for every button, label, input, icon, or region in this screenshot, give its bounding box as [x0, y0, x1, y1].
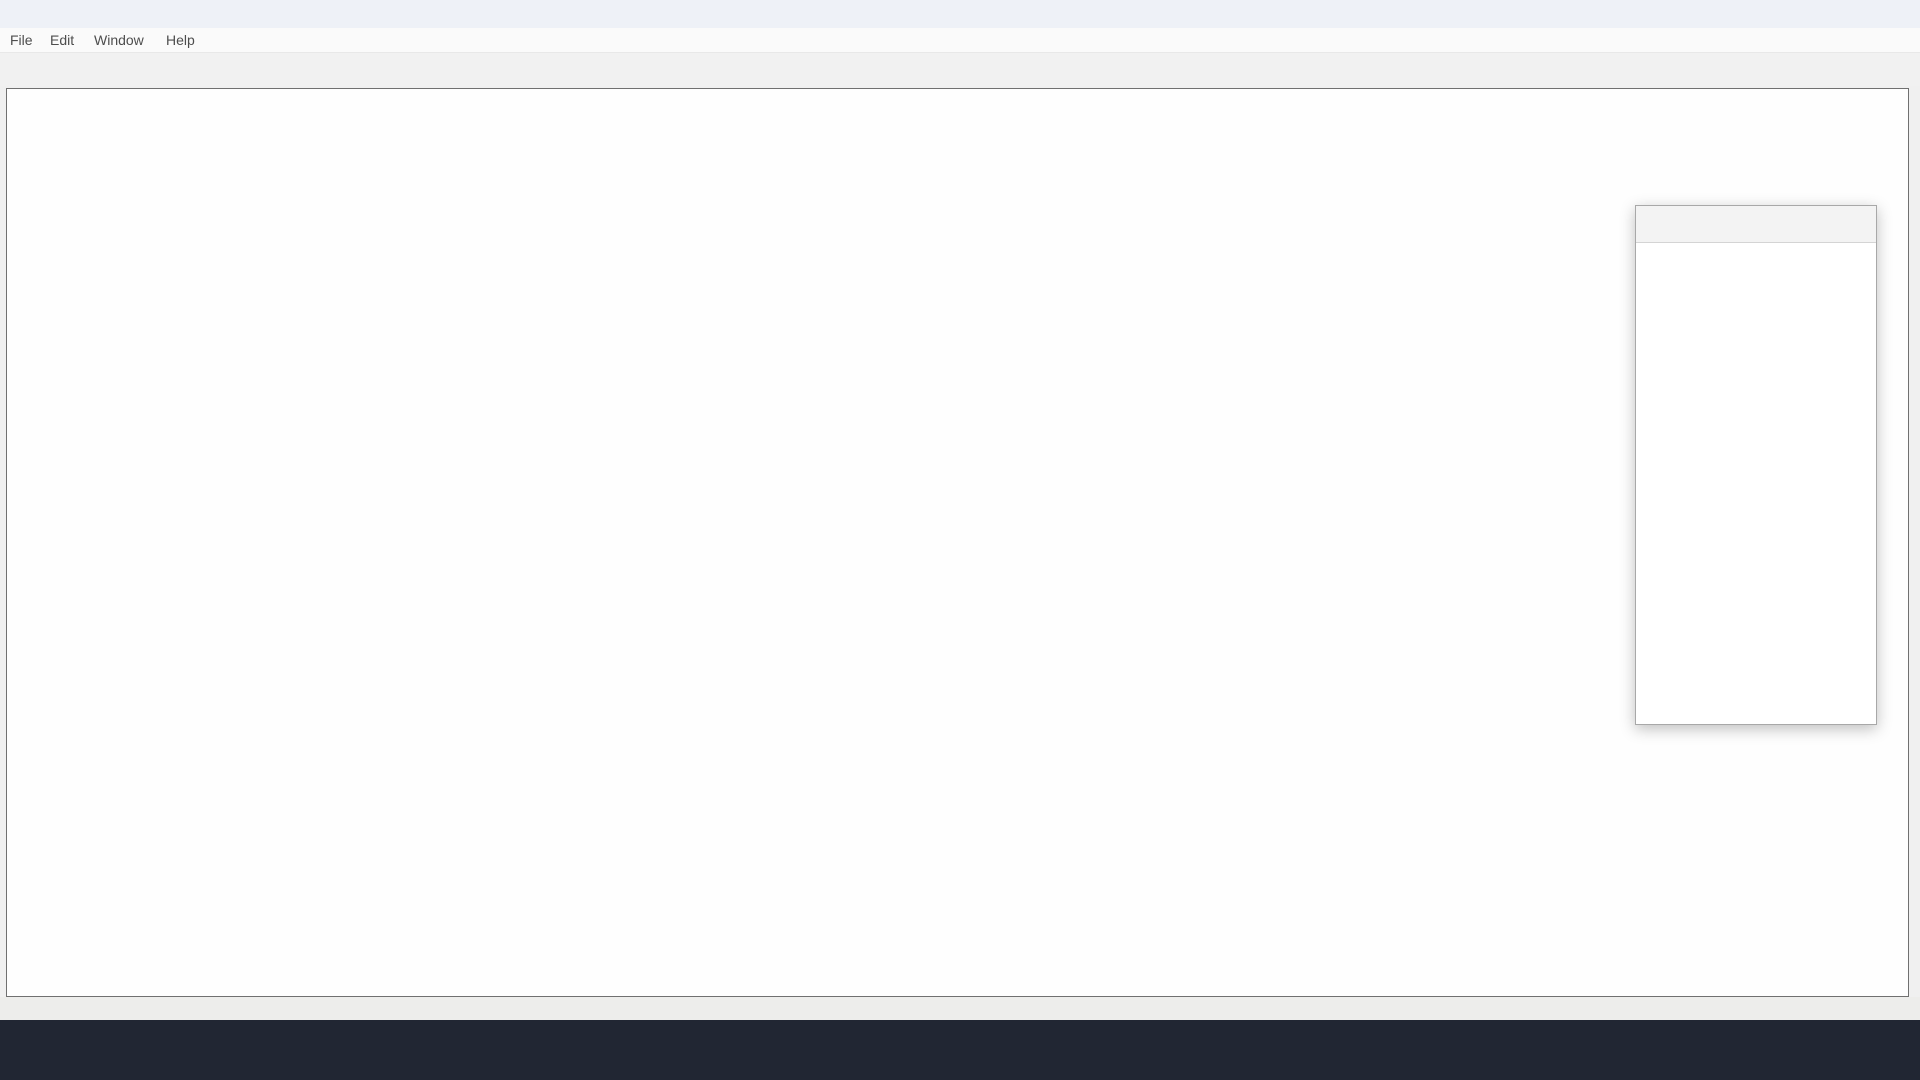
menu bar: [0, 28, 1920, 53]
window title bar: [0, 0, 1920, 28]
library panel: [1635, 205, 1877, 725]
taskbar: [0, 1020, 1920, 1080]
toolbar: [0, 53, 1920, 86]
